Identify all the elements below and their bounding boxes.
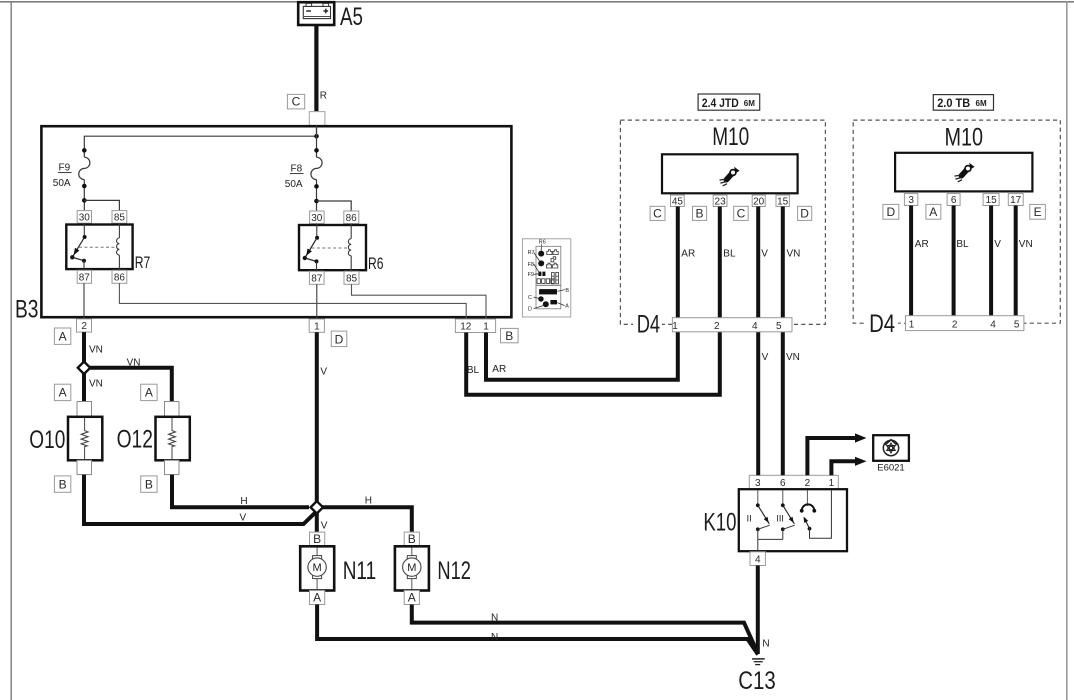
svg-text:F8: F8 — [291, 164, 303, 175]
svg-text:50A: 50A — [53, 178, 71, 189]
svg-text:A: A — [929, 205, 937, 219]
wire BL M10 pin6 to D4 — [952, 206, 956, 317]
node dot above F9 — [82, 148, 87, 153]
svg-text:23: 23 — [715, 196, 727, 207]
pin 17 — [1008, 194, 1023, 206]
svg-text:VN: VN — [1019, 239, 1033, 250]
svg-text:D: D — [800, 206, 809, 220]
motor N11 — [300, 532, 334, 605]
connector letter B — [501, 328, 519, 342]
fuse F8 50A — [311, 157, 322, 179]
svg-text:20: 20 — [753, 196, 765, 207]
svg-text:V: V — [240, 512, 247, 523]
connector letter E — [1030, 204, 1046, 219]
svg-text:F8: F8 — [528, 262, 534, 268]
svg-text:D: D — [335, 332, 344, 346]
svg-text:A: A — [59, 330, 67, 344]
svg-text:VN: VN — [127, 358, 141, 369]
pin 6 — [947, 194, 960, 206]
svg-text:BL: BL — [723, 248, 736, 259]
wire R7-87 to pin2 — [83, 283, 85, 319]
svg-text:2: 2 — [805, 478, 811, 489]
svg-text:AR: AR — [915, 239, 929, 250]
wire H from O12 to splice — [172, 475, 309, 508]
svg-text:A5: A5 — [340, 3, 363, 31]
svg-text:V: V — [994, 239, 1001, 250]
wire F8 to R6 pin30 — [316, 180, 318, 211]
node dot below F9 — [82, 184, 87, 189]
pin 23 — [713, 195, 727, 206]
wire R6-85 to pin1b — [352, 284, 487, 319]
svg-text:AR: AR — [492, 364, 506, 375]
svg-text:E: E — [1034, 205, 1042, 219]
resistor O10 — [68, 402, 102, 475]
connector letter C — [287, 94, 304, 109]
icon glow plug — [955, 163, 975, 182]
legend B3 fusebox layout — [522, 239, 570, 317]
svg-text:2: 2 — [81, 321, 87, 332]
svg-text:R7: R7 — [528, 250, 535, 256]
svg-text:4: 4 — [990, 320, 996, 331]
svg-text:17: 17 — [1010, 195, 1022, 206]
svg-text:A: A — [59, 386, 67, 400]
svg-text:6M: 6M — [744, 99, 755, 108]
svg-text:B: B — [565, 288, 569, 294]
pin 3 — [904, 194, 917, 206]
node dot above F8 — [314, 148, 319, 153]
svg-text:E6021: E6021 — [877, 463, 904, 474]
fuse F9 50A — [79, 157, 90, 179]
svg-text:R6: R6 — [539, 240, 546, 246]
svg-text:2.0 TB: 2.0 TB — [937, 96, 970, 110]
svg-text:VN: VN — [89, 345, 103, 356]
wire K10 pin2 arrow to E6021 — [807, 438, 855, 475]
svg-text:30: 30 — [311, 213, 323, 224]
svg-text:D4: D4 — [869, 310, 895, 338]
wire R6-87 to pin1 — [316, 284, 318, 319]
svg-text:VN: VN — [89, 378, 103, 389]
node splice diamond — [78, 362, 90, 374]
svg-text:15: 15 — [986, 195, 998, 206]
wire BL M10 pin23 to D4 — [718, 207, 722, 318]
svg-text:V: V — [761, 248, 768, 259]
connector letter B of O12 — [141, 476, 157, 492]
svg-text:V: V — [321, 520, 328, 531]
connector letter C — [650, 206, 665, 220]
svg-text:H: H — [240, 496, 247, 507]
svg-text:1: 1 — [314, 321, 320, 332]
variant label 2.0 TB 6M — [933, 95, 993, 111]
pin 2 of B3 — [77, 319, 92, 332]
svg-text:2: 2 — [952, 320, 958, 331]
svg-text:45: 45 — [672, 196, 684, 207]
svg-text:B: B — [408, 532, 416, 546]
svg-text:87: 87 — [311, 273, 323, 284]
svg-text:1: 1 — [672, 321, 678, 332]
svg-text:1: 1 — [909, 320, 915, 331]
pin 15 — [983, 194, 999, 206]
label D4 — [633, 314, 662, 333]
svg-text:3: 3 — [908, 195, 914, 206]
connector letter A of O10 — [54, 384, 70, 400]
connector letter A — [54, 328, 70, 344]
motor N12 — [395, 532, 429, 605]
pins 12 1 of B3 — [455, 319, 495, 333]
svg-text:F9: F9 — [59, 163, 71, 174]
relay R6 — [299, 211, 366, 284]
wire VN diamond to O10 — [82, 372, 86, 402]
connector letter D — [331, 331, 347, 347]
svg-text:2.4 JTD: 2.4 JTD — [702, 96, 739, 110]
svg-text:M10: M10 — [945, 124, 984, 152]
svg-text:A: A — [565, 304, 569, 310]
svg-text:6: 6 — [780, 478, 786, 489]
svg-text:15: 15 — [777, 196, 789, 207]
svg-text:F9: F9 — [528, 272, 534, 278]
relay R7 — [66, 211, 132, 284]
wire F9 to R7 pin30 — [83, 180, 85, 211]
pin 20 — [752, 195, 765, 206]
svg-text:30: 30 — [79, 212, 91, 223]
icon glow plug — [720, 167, 740, 186]
svg-text:85: 85 — [114, 212, 126, 223]
wire VN M10 pin15 to K10 pin6 — [781, 207, 785, 476]
pin 45 — [671, 195, 685, 206]
wire N from N12 to C13 — [412, 605, 757, 653]
wire bus inside B3 — [84, 126, 316, 158]
box B3 — [41, 126, 511, 317]
connector letter D — [798, 206, 812, 220]
wire AR B3 pin1b to D4 pin1 — [486, 332, 678, 380]
variant label 2.4 JTD 6M — [698, 94, 760, 110]
svg-text:87: 87 — [79, 272, 91, 283]
svg-text:C: C — [653, 206, 662, 220]
connector letter B of O10 — [54, 476, 70, 492]
svg-text:85: 85 — [346, 273, 358, 284]
svg-text:N12: N12 — [437, 557, 471, 585]
svg-text:BL: BL — [956, 239, 969, 250]
dashed boundary M10 JTD — [620, 120, 825, 324]
connector letter A of O12 — [141, 384, 157, 400]
dashed boundary M10 TB — [853, 120, 1060, 323]
wire branch to R7 pin85 — [84, 200, 119, 210]
svg-text:3: 3 — [755, 478, 761, 489]
svg-text:A: A — [313, 591, 321, 605]
wire VN diamond to O12 — [88, 368, 172, 402]
svg-text:D: D — [528, 307, 532, 313]
wire K10 pin1 arrow to E6021 — [831, 461, 855, 475]
wire R7-86 to pin12 — [119, 283, 466, 319]
svg-text:BL: BL — [467, 365, 480, 376]
svg-text:C: C — [292, 95, 301, 109]
node branch dot F9 — [82, 198, 87, 203]
svg-text:A: A — [408, 591, 416, 605]
ECU M10 JTD — [662, 154, 798, 193]
svg-text:H: H — [365, 496, 372, 507]
svg-text:O10: O10 — [29, 426, 65, 454]
svg-text:86: 86 — [346, 213, 358, 224]
svg-text:B3: B3 — [15, 295, 39, 323]
wire K10 pin4 to ground — [756, 566, 760, 655]
svg-text:II: II — [747, 514, 752, 524]
wire VN pin2 to diamond — [82, 332, 86, 362]
svg-text:C13: C13 — [738, 667, 776, 695]
svg-text:R6: R6 — [368, 254, 384, 273]
svg-text:50A: 50A — [285, 179, 303, 190]
component E6021 — [873, 435, 909, 473]
svg-text:5: 5 — [776, 321, 782, 332]
resistor O12 — [156, 402, 190, 475]
svg-text:1: 1 — [483, 321, 489, 332]
svg-text:O12: O12 — [117, 426, 153, 454]
connector letter A — [926, 204, 941, 219]
svg-text:M: M — [407, 562, 416, 574]
svg-text:4: 4 — [755, 554, 761, 565]
connector D4 JTD — [672, 318, 792, 332]
ECU M10 TB — [895, 153, 1032, 192]
wire H splice to N12 — [321, 507, 412, 532]
node dot below F8 — [314, 184, 319, 189]
svg-text:V: V — [320, 366, 327, 377]
svg-text:4: 4 — [752, 321, 758, 332]
wire branch to R6 pin86 — [317, 201, 352, 211]
svg-text:R: R — [320, 91, 327, 102]
svg-text:R7: R7 — [135, 253, 151, 272]
wire V M10 pin15 to D4 — [989, 206, 993, 317]
battery A5 — [298, 2, 334, 25]
svg-text:A: A — [145, 386, 153, 400]
switch K10 — [739, 475, 847, 565]
node branch dot F8 — [314, 199, 319, 204]
wire N from N11 to C13 — [317, 605, 758, 655]
svg-text:M: M — [313, 562, 322, 574]
wire V from B3 pin1 down — [315, 332, 319, 502]
svg-text:N11: N11 — [343, 557, 377, 585]
node C entry box on B3 — [309, 112, 325, 126]
svg-text:III: III — [776, 514, 784, 524]
svg-text:AR: AR — [681, 248, 695, 259]
ground C13 — [752, 659, 765, 665]
connector D4 TB — [906, 316, 1024, 331]
svg-text:M10: M10 — [712, 123, 749, 151]
node splice diamond 2 — [311, 501, 323, 513]
wire battery node to F8 — [316, 126, 318, 158]
svg-text:5: 5 — [1014, 320, 1020, 331]
svg-text:C: C — [528, 295, 532, 301]
svg-text:D: D — [886, 205, 895, 219]
connector letter B — [693, 206, 707, 220]
svg-text:2: 2 — [714, 321, 720, 332]
svg-text:N: N — [762, 638, 769, 649]
wire VN M10 pin17 to D4 — [1014, 206, 1018, 317]
svg-text:B: B — [59, 477, 67, 491]
svg-text:D4: D4 — [637, 310, 660, 338]
svg-text:VN: VN — [787, 248, 801, 259]
label D4 — [866, 313, 898, 333]
svg-text:86: 86 — [114, 272, 126, 283]
svg-text:6: 6 — [951, 195, 957, 206]
wire V M10 pin20 to K10 pin3 — [756, 207, 760, 476]
pin 1 of B3 — [309, 319, 324, 332]
svg-text:B: B — [505, 329, 513, 343]
svg-text:N: N — [491, 632, 498, 643]
svg-text:B: B — [695, 206, 703, 220]
svg-text:K10: K10 — [703, 509, 736, 537]
wire V from O10 to splice — [84, 475, 317, 524]
wire battery to B3 (R) — [314, 25, 318, 112]
svg-text:V: V — [762, 352, 769, 363]
svg-text:C: C — [737, 206, 746, 220]
svg-text:B: B — [145, 477, 153, 491]
svg-text:VN: VN — [786, 352, 800, 363]
connector letter D — [883, 204, 899, 219]
connector letter C — [734, 206, 749, 220]
svg-text:B: B — [313, 532, 321, 546]
node junction dot — [314, 134, 319, 139]
wire AR M10 pin3 to D4 — [909, 206, 913, 317]
wire AR M10 pin45 to D4 — [676, 207, 680, 318]
svg-text:6M: 6M — [976, 99, 987, 108]
svg-text:1: 1 — [829, 478, 835, 489]
svg-text:12: 12 — [460, 321, 472, 332]
wire BL B3 pin12 to D4 pin2 — [466, 332, 720, 395]
pin 15 — [776, 195, 789, 206]
wire V splice to N11 — [315, 511, 319, 532]
